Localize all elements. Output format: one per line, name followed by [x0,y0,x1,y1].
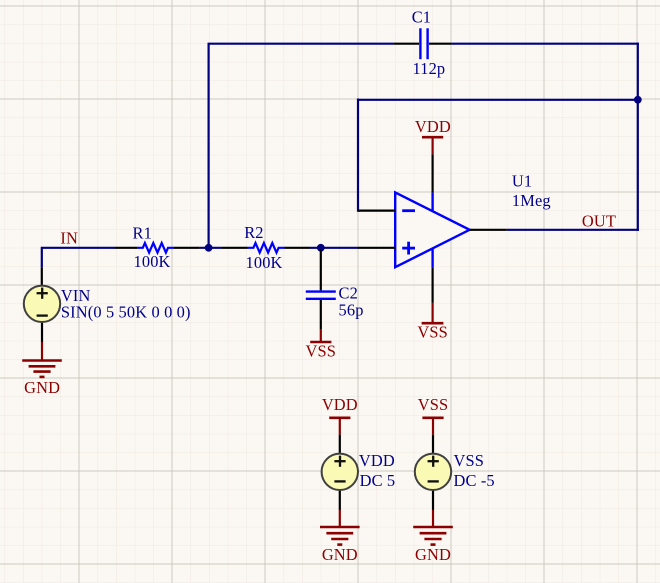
power port VSS below C2 [306,329,337,360]
svg-text:R1: R1 [133,223,152,242]
VDD source minus mark [334,480,345,482]
power port VSS below op-amp [417,303,448,342]
wire: C1 right pin to top-right corner [452,43,639,45]
wire: right vertical from top corner down to OUT [637,43,639,231]
VDD source pin + (top) [339,435,341,454]
U1 VDD stub inside body [431,192,433,211]
svg-text:VDD: VDD [415,117,451,136]
capacitor C2 [306,249,364,329]
wire: R1 to R2 through junction [199,247,222,249]
VIN pin + (top) [41,267,43,286]
svg-text:56p: 56p [339,301,364,320]
R2 pin 2 [284,247,310,249]
wire: R2 to op-amp plus input [310,247,358,249]
U1 inverting input minus sign [402,209,415,212]
ground below source V3 [413,510,453,564]
power port VDD above source V2 [322,395,358,435]
voltage source VIN [24,267,191,342]
U1 VSS stub inside body [431,248,433,267]
VSS source plus mark [428,460,439,462]
svg-text:VSS: VSS [306,341,337,360]
U1 triangle body [395,192,469,267]
svg-text:100K: 100K [134,252,171,271]
C2 top plate [306,290,336,292]
C1 left plate [419,28,421,59]
wire: feedback horizontal at y=100 [358,99,639,101]
svg-text:VSS: VSS [454,451,485,470]
svg-text:C1: C1 [412,7,431,26]
svg-text:VDD: VDD [359,451,395,470]
VSS source pin + (top) [432,435,434,454]
svg-text:112p: 112p [413,59,446,78]
svg-text:SIN(0 5 50K 0 0 0): SIN(0 5 50K 0 0 0) [61,303,191,322]
op-amp pin: output [470,229,507,231]
svg-text:DC -5: DC -5 [454,471,495,490]
junction node at R2/C2 [317,244,325,252]
wire: top horizontal to C1 left pin [208,43,394,45]
power port VSS above source V3 [418,395,449,435]
voltage source VSS (DC -5) [415,435,495,510]
capacitor C1 [393,7,451,78]
svg-text:GND: GND [24,378,60,397]
VDD source circle body [322,454,358,490]
C2 pin 2 [320,300,322,329]
ground below VIN [22,342,62,397]
op-amp U1 [395,171,551,267]
svg-text:1Meg: 1Meg [512,191,551,210]
junction node at R1/R2 [205,244,213,252]
wire: feedback vertical down to minus input [358,99,360,211]
VIN circle body [24,286,60,322]
op-amp pin: VSS [432,267,434,303]
U1 non-inverting input plus sign [402,247,415,250]
R1 pin 2 [174,247,200,249]
VDD source pin - (bottom) [339,490,341,510]
C2 bottom plate [306,298,336,300]
power port VDD above op-amp [415,117,451,155]
svg-text:R2: R2 [244,223,263,242]
VSS source pin - (bottom) [432,490,434,510]
R1 body zigzag [137,243,174,253]
C1 pin 1 [393,43,419,45]
op-amp pin: non-inverting input [358,247,395,249]
ground below source V2 [320,510,360,564]
VSS source circle body [415,454,451,490]
svg-text:U1: U1 [512,171,532,190]
resistor R1 [115,223,200,271]
svg-text:GND: GND [415,545,451,564]
svg-text:GND: GND [322,545,358,564]
VDD source plus mark [334,460,345,462]
C1 right plate [426,28,428,59]
R2 pin 1 [222,247,248,249]
VIN plus mark [37,292,48,294]
R2 body zigzag [248,243,285,253]
voltage source VDD (DC 5) [322,435,396,510]
junction node on right vertical / feedback [634,96,642,104]
op-amp pin: VDD [432,154,434,192]
svg-text:100K: 100K [246,253,283,272]
svg-text:OUT: OUT [582,212,616,231]
svg-text:VSS: VSS [417,323,448,342]
R1 pin 1 [115,247,138,249]
svg-text:IN: IN [60,228,78,247]
svg-text:VSS: VSS [418,395,449,414]
C2 pin 1 [320,249,322,290]
VIN pin - (bottom) [41,322,43,342]
C1 pin 2 [429,43,452,45]
VIN minus mark [37,314,48,316]
wire: net IN from VIN to R1 [42,248,115,268]
resistor R2 [222,223,310,272]
wire: op-amp output to right vertical [507,229,639,231]
VSS source minus mark [428,480,439,482]
svg-text:VDD: VDD [322,395,358,414]
wire: vertical from R1/R2 junction up to C1 [208,44,210,248]
op-amp pin: inverting input [358,210,395,212]
svg-text:DC 5: DC 5 [360,471,396,490]
